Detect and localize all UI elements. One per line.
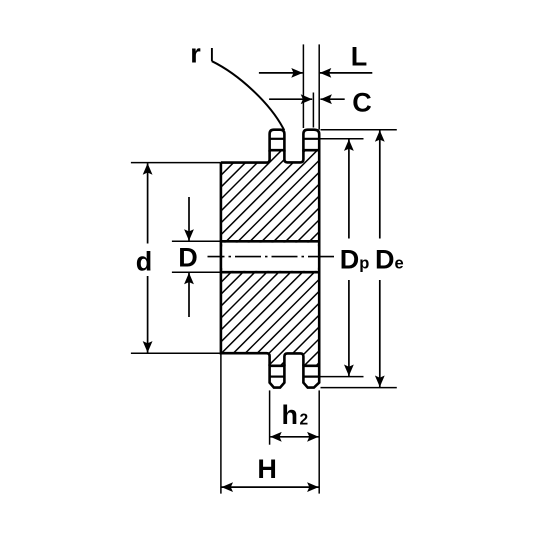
dimension Dp bbox=[348, 139, 350, 238]
svg-text:D: D bbox=[178, 243, 198, 273]
dimension H bbox=[222, 486, 319, 488]
r flank curve bbox=[212, 61, 284, 130]
svg-text:L: L bbox=[351, 42, 368, 72]
centre line (dash-dot) bbox=[208, 256, 337, 258]
h2 extension lines bbox=[269, 390, 271, 444]
r leader tick bbox=[211, 48, 213, 61]
svg-text:C: C bbox=[352, 87, 372, 117]
tooth bottom-left bbox=[270, 366, 285, 388]
dimension De bbox=[379, 130, 381, 238]
C extension line (short) bbox=[312, 93, 314, 128]
svg-text:H: H bbox=[257, 454, 277, 484]
d extension lines bbox=[131, 162, 221, 164]
svg-text:d: d bbox=[136, 246, 153, 276]
bore edge lines (thick in body, thin extensions to left) bbox=[172, 241, 319, 272]
tooth top-left (plate section, not cut) bbox=[270, 130, 285, 151]
pitch lines across teeth bbox=[270, 139, 320, 377]
H extension line (left, below body) bbox=[220, 353, 222, 493]
tooth top-right bbox=[303, 130, 319, 151]
dimension D (bore) bbox=[188, 197, 190, 241]
dimension C bbox=[269, 98, 312, 100]
svg-text:r: r bbox=[190, 38, 201, 68]
L extension lines bbox=[302, 44, 304, 128]
sprocket body hatching (section lines) bbox=[0, 140, 550, 380]
body cross-section outline bbox=[221, 150, 319, 366]
bore hole (white band through hub) bbox=[222, 243, 318, 271]
dimension h2 bbox=[270, 436, 318, 438]
Dp/De extension lines (right side) bbox=[321, 130, 397, 388]
dimension d bbox=[147, 163, 149, 243]
tooth bottom-right bbox=[303, 366, 319, 388]
dimension L bbox=[259, 72, 303, 74]
